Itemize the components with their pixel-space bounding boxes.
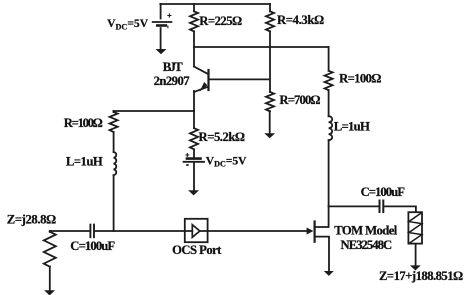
svg-text:NE32548C: NE32548C <box>341 238 393 252</box>
svg-text:TOM Model: TOM Model <box>334 224 398 238</box>
svg-text:2n2907: 2n2907 <box>154 74 191 88</box>
svg-text:VDC=5V: VDC=5V <box>206 154 247 169</box>
svg-text:C=100uF: C=100uF <box>70 239 115 253</box>
svg-text:R=100Ω: R=100Ω <box>64 116 103 130</box>
svg-text:R=700Ω: R=700Ω <box>279 93 320 107</box>
svg-text:Z=17+j188.851Ω: Z=17+j188.851Ω <box>379 269 463 283</box>
svg-text:Z=j28.8Ω: Z=j28.8Ω <box>7 213 56 227</box>
svg-text:R=5.2kΩ: R=5.2kΩ <box>199 130 246 144</box>
svg-text:C=100uF: C=100uF <box>361 185 406 199</box>
svg-text:L=1uH: L=1uH <box>334 120 370 134</box>
svg-text:BJT: BJT <box>163 60 184 74</box>
svg-text:R=100Ω: R=100Ω <box>339 72 381 86</box>
svg-text:R=225Ω: R=225Ω <box>199 14 242 28</box>
svg-text:VDC=5V: VDC=5V <box>107 16 148 31</box>
svg-text:R=4.3kΩ: R=4.3kΩ <box>277 13 324 27</box>
svg-text:L=1uH: L=1uH <box>66 154 103 168</box>
svg-text:OCS Port: OCS Port <box>172 243 222 257</box>
